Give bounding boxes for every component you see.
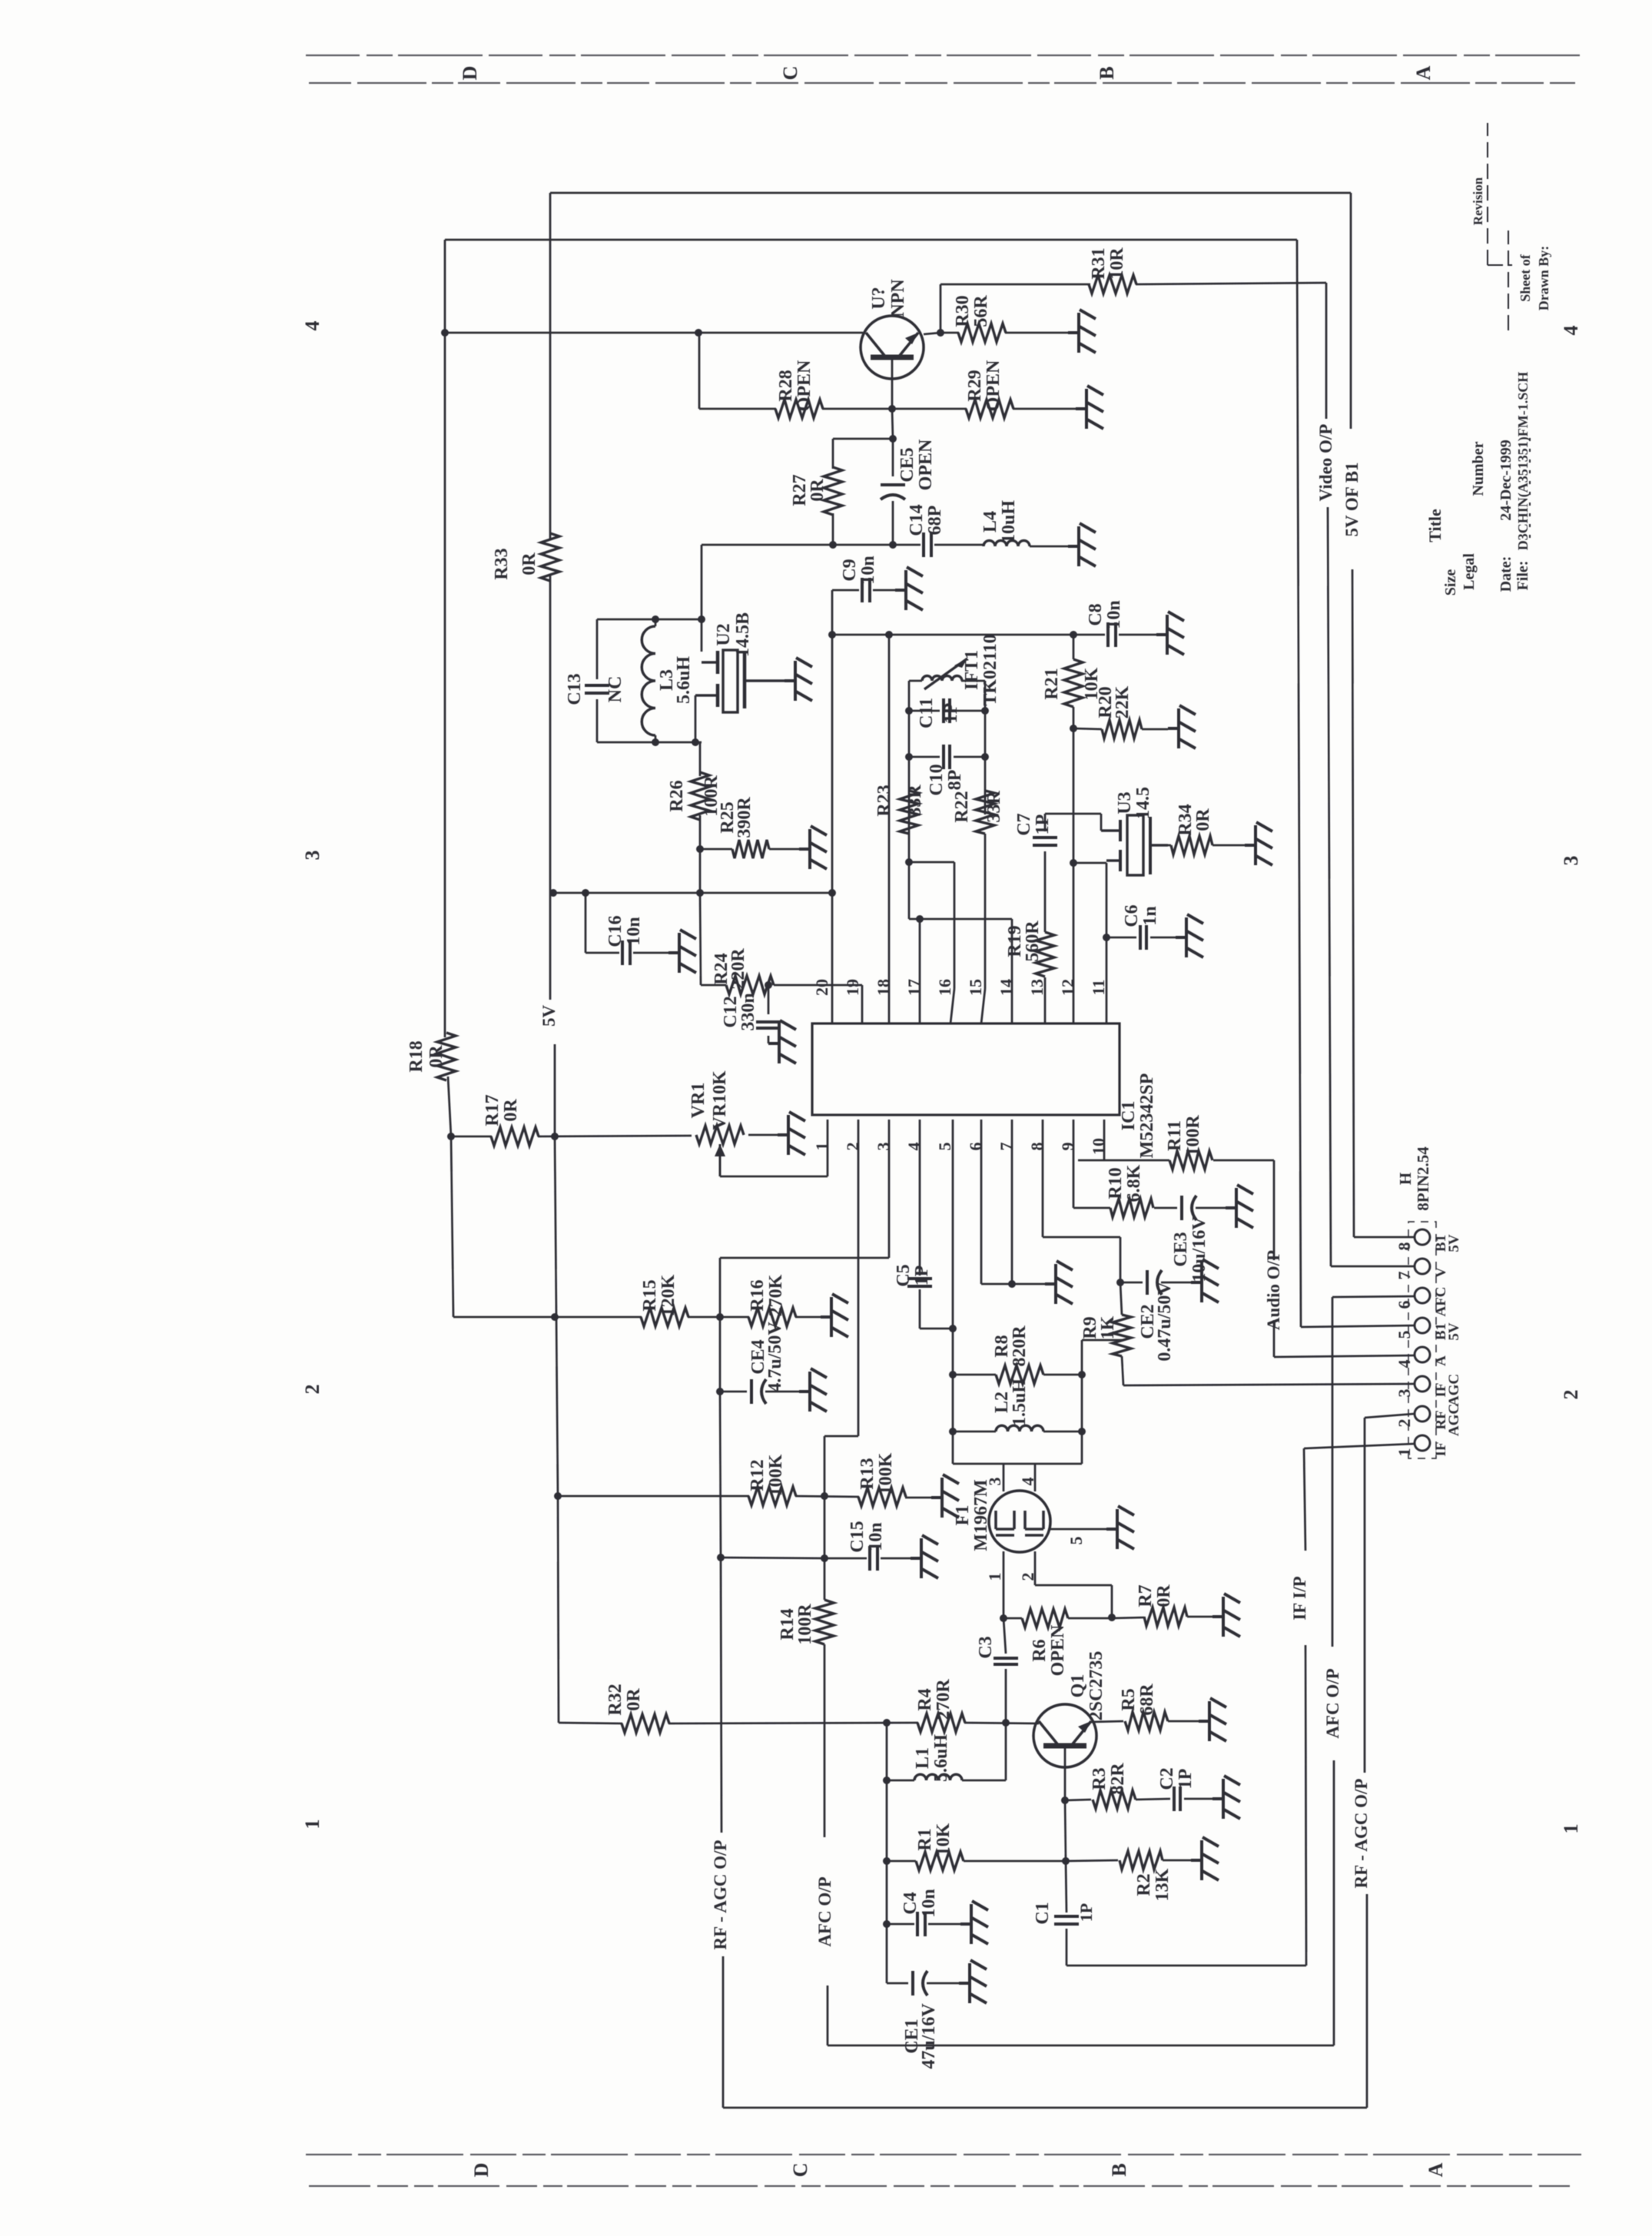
svg-text:R13: R13 — [858, 1458, 877, 1489]
svg-text:5: 5 — [1395, 1331, 1414, 1339]
svg-text:C: C — [789, 2163, 811, 2178]
wire Q1 emitter to R5 — [1091, 1721, 1123, 1722]
resistor R22 33R — [976, 791, 994, 834]
capacitor CE3 10u/16V — [1180, 1196, 1183, 1220]
wire IFT1 bottom to pin16 — [909, 861, 954, 864]
wire pin2 long stub — [858, 1120, 860, 1436]
wire R24 rail (portrait y=1282) — [701, 984, 726, 987]
ground for C2 — [1212, 1776, 1240, 1819]
svg-text:22K: 22K — [1113, 685, 1133, 718]
svg-text:Revision: Revision — [1471, 177, 1485, 225]
svg-text:270K: 270K — [766, 1274, 786, 1316]
capacitor C15 10n — [868, 1546, 871, 1571]
svg-text:3: 3 — [301, 851, 323, 861]
wire R20 to ground — [1142, 728, 1168, 731]
resistor R27 0R — [824, 467, 842, 515]
svg-text:1P: 1P — [941, 703, 961, 724]
wire W2 (portrait y=709) — [702, 544, 921, 546]
ground for CE1 — [959, 1960, 987, 2003]
wire R6 rail (portrait y=2106) — [1003, 1617, 1022, 1620]
svg-text:5.6uH: 5.6uH — [931, 1734, 951, 1782]
ground for C8 — [1156, 612, 1184, 655]
svg-text:0R: 0R — [426, 1045, 446, 1068]
resistor R15 120K — [641, 1308, 688, 1326]
svg-text:R22: R22 — [952, 791, 972, 822]
svg-text:R10: R10 — [1106, 1167, 1126, 1199]
svg-text:5V: 5V — [539, 1005, 559, 1027]
svg-text:R31: R31 — [1089, 247, 1109, 279]
svg-text:R21: R21 — [1042, 668, 1062, 699]
svg-text:2: 2 — [301, 1385, 323, 1395]
svg-text:Legal: Legal — [1461, 553, 1478, 590]
wire VR1 feed (portrait y=1478) — [451, 1136, 492, 1138]
svg-text:0R: 0R — [501, 1099, 521, 1122]
svg-text:Audio O/P: Audio O/P — [1264, 1250, 1283, 1330]
ground for R25 — [799, 826, 827, 869]
capacitor C7 1P — [1033, 844, 1057, 847]
resistor R31 10R — [1089, 275, 1136, 294]
svg-text:R29: R29 — [965, 370, 985, 401]
svg-text:0.47u/50V: 0.47u/50V — [1155, 1282, 1175, 1362]
potentiometer VR1 VR10K — [696, 1126, 744, 1144]
svg-text:C16: C16 — [605, 915, 625, 947]
wire U3 bottom pin to pin11 column — [1106, 863, 1108, 1023]
wire CE4 to ground — [765, 1391, 799, 1393]
wire pin4 stub with C5 — [919, 1120, 921, 1276]
wire R21 to pin12 column — [1073, 707, 1075, 1023]
svg-text:4: 4 — [1560, 326, 1582, 336]
svg-text:1P: 1P — [912, 1266, 932, 1286]
svg-text:CE3: CE3 — [1171, 1232, 1191, 1266]
svg-text:100K: 100K — [876, 1452, 896, 1495]
resistor R20 22K — [1073, 728, 1102, 729]
svg-text:C2: C2 — [1157, 1767, 1177, 1790]
capacitor C9 10n — [861, 578, 864, 602]
svg-text:3: 3 — [1560, 856, 1582, 866]
wire Audio O/P drop (portrait x=1658) — [1273, 1160, 1275, 1260]
title block — [1425, 177, 1551, 595]
inductor L1 5.6uH — [887, 1780, 914, 1782]
svg-text:RF - AGC O/P: RF - AGC O/P — [711, 1840, 730, 1950]
wire CE4 branch — [720, 1391, 747, 1393]
wire F1 source to ground — [1050, 1528, 1106, 1531]
svg-text:L4: L4 — [980, 511, 1000, 532]
wire pin3 stub to AGC divider column — [888, 1120, 891, 1258]
wire CE1 to ground — [927, 1982, 959, 1985]
capacitor C8 10n — [1106, 622, 1110, 647]
ground for CE2 — [1191, 1259, 1219, 1302]
svg-text:Q1: Q1 — [1068, 1674, 1088, 1698]
svg-text:68P: 68P — [925, 506, 945, 536]
svg-text:R12: R12 — [748, 1459, 768, 1491]
resistor R8 820R — [953, 1374, 996, 1376]
wire RF-AGC rise to connector pin 2 — [1366, 1894, 1368, 2108]
svg-text:2: 2 — [1018, 1573, 1037, 1581]
svg-text:2: 2 — [1560, 1390, 1582, 1400]
wire 5V rail vertical (portrait x=716/724) — [549, 193, 552, 540]
resistor R12 100K — [748, 1487, 796, 1505]
svg-text:H: H — [1396, 1173, 1415, 1185]
svg-text:R23: R23 — [874, 785, 894, 816]
svg-text:R16: R16 — [748, 1279, 768, 1311]
capacitor C4 10n — [887, 1923, 914, 1926]
wire tank bottom to R26 — [699, 742, 702, 776]
resistor R6 OPEN — [1022, 1609, 1068, 1627]
svg-text:C15: C15 — [848, 1521, 867, 1552]
svg-text:C11: C11 — [917, 698, 937, 728]
wire R7 to ground — [1187, 1616, 1212, 1618]
svg-text:C8: C8 — [1086, 603, 1106, 625]
svg-text:1: 1 — [1395, 1448, 1414, 1457]
resistor R30 56R — [958, 323, 1006, 342]
wire R27 branch — [833, 438, 893, 440]
wire decoupling rail (portrait y=826) — [832, 634, 1105, 636]
svg-text:6: 6 — [1395, 1301, 1414, 1309]
svg-text:1n: 1n — [1140, 906, 1160, 925]
resistor R34 0R — [1150, 844, 1171, 847]
svg-text:1K: 1K — [1098, 1315, 1118, 1339]
svg-text:AFC O/P: AFC O/P — [815, 1876, 834, 1946]
svg-text:TK02110: TK02110 — [980, 634, 1000, 705]
svg-text:F1: F1 — [953, 1505, 973, 1526]
svg-text:1P: 1P — [1033, 814, 1053, 835]
wire C8 to ground — [1119, 634, 1156, 636]
wire block bottom to FET gates — [953, 1463, 1082, 1465]
svg-text:1: 1 — [301, 1820, 323, 1830]
capacitor CE1 47u/16V — [887, 1982, 908, 1985]
svg-text:R15: R15 — [640, 1279, 660, 1311]
capacitor C10 8P — [909, 756, 940, 758]
svg-text:16: 16 — [935, 979, 954, 996]
ground for pins 6,7 — [1045, 1261, 1073, 1304]
svg-text:12: 12 — [1058, 979, 1077, 996]
ground for R34 — [1245, 822, 1272, 865]
ground for R2 — [1191, 1837, 1219, 1880]
svg-text:4: 4 — [1018, 1478, 1037, 1486]
svg-text:11: 11 — [1089, 980, 1108, 996]
resistor R1 10K — [887, 1860, 916, 1863]
wire pin8 stub to CE2/R9 (portrait x=1352 down, y=1610 right) — [1042, 1120, 1044, 1237]
wire CE2 to ground — [1161, 1282, 1191, 1284]
wire tank top rail — [597, 619, 702, 621]
svg-text:B: B — [1096, 66, 1118, 79]
svg-text:1P: 1P — [1176, 1769, 1196, 1790]
svg-text:C3: C3 — [976, 1636, 996, 1658]
transistor U? NPN — [861, 316, 924, 379]
wire R9 to IF AGC line (portrait y=1803) — [1122, 1356, 1123, 1385]
ground for R20 — [1168, 705, 1196, 748]
wire base bias W1 (portrait y=532) — [698, 333, 701, 409]
resistor R11 100R — [1169, 1151, 1212, 1169]
svg-text:C6: C6 — [1122, 904, 1142, 927]
wire emitter to R30 junction — [924, 333, 940, 334]
capacitor C14 68P — [922, 532, 925, 557]
svg-text:10K: 10K — [934, 1823, 954, 1856]
svg-text:0R: 0R — [1154, 1584, 1174, 1607]
resistor R14 100R — [815, 1600, 834, 1644]
ground for C4 — [960, 1901, 988, 1944]
resistor R16 270K — [748, 1308, 796, 1326]
connector H 8PIN2.54 — [1415, 1229, 1430, 1451]
capacitor C5 1P — [907, 1285, 932, 1288]
wire C7 top jog to U3 — [1045, 813, 1101, 815]
svg-text:330n: 330n — [738, 993, 758, 1030]
svg-text:5: 5 — [1067, 1537, 1086, 1545]
svg-text:R5: R5 — [1119, 1688, 1139, 1710]
svg-text:15: 15 — [966, 979, 985, 996]
wire C15/R14 column (portrait x=1073) — [824, 1496, 826, 1600]
svg-text:A: A — [1425, 2162, 1447, 2177]
svg-text:AFC O/P: AFC O/P — [1323, 1668, 1342, 1738]
wire tank bottom rail — [597, 741, 702, 744]
svg-text:220R: 220R — [728, 948, 748, 990]
svg-text:1: 1 — [1560, 1824, 1582, 1834]
svg-text:13: 13 — [1027, 979, 1047, 996]
wire CE3 to ground — [1196, 1207, 1226, 1209]
svg-text:68R: 68R — [1137, 1684, 1157, 1716]
wire video takeoff column (portrait x=1224) — [940, 284, 942, 333]
capacitor C2 1P — [1136, 1799, 1170, 1800]
wire audio to connector pin 4 — [1274, 1355, 1414, 1357]
wire L1 right to base column — [1005, 1723, 1007, 1780]
svg-text:C14: C14 — [907, 504, 927, 536]
svg-text:L1: L1 — [913, 1747, 933, 1769]
capacitor CE5 OPEN — [881, 483, 905, 486]
svg-text:D: D — [459, 66, 481, 81]
wire AFC O/P to bottom rail — [827, 1986, 829, 2045]
svg-text:270R: 270R — [934, 1679, 954, 1720]
svg-text:OPEN: OPEN — [794, 360, 814, 411]
svg-text:10n: 10n — [866, 1522, 886, 1551]
wire R5 to ground — [1168, 1720, 1199, 1723]
svg-text:10R: 10R — [1107, 247, 1127, 280]
wire pins 6,7 to ground — [980, 1120, 983, 1284]
IFT1 block left rail — [908, 681, 911, 919]
svg-text:M1967M: M1967M — [971, 1479, 991, 1551]
wire L4 to ground — [1030, 546, 1068, 548]
svg-text:6.8K: 6.8K — [1124, 1164, 1144, 1202]
ground for R13 — [931, 1475, 959, 1518]
svg-text:R1: R1 — [915, 1828, 935, 1850]
svg-text:R3: R3 — [1090, 1767, 1110, 1790]
svg-text:10u/16V: 10u/16V — [1189, 1216, 1209, 1282]
wire RF-AGC bottom rail — [722, 1956, 725, 2108]
wire C1 bottom to IF column — [1067, 1965, 1306, 1967]
transistor Q1 2SC2735 — [1033, 1704, 1096, 1767]
inductor L2 1.5uH — [953, 1431, 996, 1433]
capacitor C6 1n — [1106, 937, 1136, 939]
capacitor C1 — [1054, 1922, 1079, 1926]
wire R25 to ground — [769, 848, 799, 851]
svg-text:33R: 33R — [984, 791, 1004, 823]
IFT1 block right rail — [984, 681, 987, 814]
resistor R32 0R — [622, 1714, 669, 1733]
wire R12/R13 rail (portrait y=1947) — [558, 1495, 749, 1498]
capacitor CE2 0.47u/50V — [1120, 1282, 1143, 1284]
wire R15/R16 rail (portrait y=1714) — [688, 1316, 749, 1319]
svg-text:47u/16V: 47u/16V — [919, 2003, 939, 2069]
svg-text:10n: 10n — [919, 1889, 939, 1917]
svg-text:Title: Title — [1425, 509, 1445, 542]
resistor R3 82R — [1065, 1800, 1091, 1800]
trimmer inductor IFT1 TK02110 — [909, 680, 922, 682]
wire IF to connector pin 1 — [1304, 1444, 1414, 1448]
ground for U2 — [785, 658, 812, 701]
wire C3 column (portrait x=1309) — [1003, 1618, 1006, 1654]
svg-text:CE5: CE5 — [897, 447, 917, 482]
resistor R4 270R — [917, 1713, 965, 1732]
svg-text:R4: R4 — [915, 1688, 935, 1710]
wire C2 to ground — [1184, 1798, 1212, 1800]
wire 5V OF B1 drop (portrait x=1758) — [1350, 193, 1352, 429]
resistor R9 1K — [1113, 1315, 1131, 1356]
wire C15 branch — [824, 1558, 867, 1560]
svg-text:100R: 100R — [1183, 1115, 1203, 1156]
svg-text:2: 2 — [1395, 1419, 1414, 1428]
resistor R2 13K — [1066, 1860, 1118, 1861]
resistor R7 0R — [1144, 1607, 1187, 1626]
svg-text:10n: 10n — [858, 556, 878, 584]
svg-text:14.5B: 14.5B — [733, 612, 753, 657]
svg-text:R17: R17 — [483, 1094, 503, 1126]
svg-text:0R: 0R — [808, 479, 828, 502]
wire R2 to ground — [1163, 1859, 1191, 1862]
svg-text:20: 20 — [812, 979, 831, 996]
svg-text:4.7u/50V: 4.7u/50V — [765, 1322, 785, 1392]
wire R15 feed (portrait y=1714) — [453, 1316, 642, 1319]
svg-text:V: V — [1433, 1267, 1449, 1278]
svg-text:U2: U2 — [714, 623, 734, 645]
svg-text:C13: C13 — [565, 673, 585, 705]
wire C7/R19 column (portrait x=1360) — [1044, 814, 1047, 831]
ground for C15 — [911, 1535, 938, 1578]
svg-text:C10: C10 — [927, 764, 947, 795]
inductor L3 5.6uH — [655, 619, 657, 626]
wire tank left branch C13 — [596, 619, 599, 679]
svg-text:R26: R26 — [667, 780, 687, 811]
sheet frame border lines — [306, 55, 1581, 2186]
svg-text:8P: 8P — [945, 770, 965, 791]
wire U3 top rail from pin12 column — [1073, 862, 1106, 864]
svg-text:8PIN2.54: 8PIN2.54 — [1414, 1146, 1432, 1211]
svg-text:R2: R2 — [1134, 1873, 1154, 1896]
resistor R25 390R — [700, 848, 732, 851]
resistor R10 6.8K — [1110, 1199, 1153, 1217]
ground for C12 — [768, 1020, 796, 1063]
resistor R26 100R — [691, 772, 709, 820]
svg-text:7: 7 — [1395, 1272, 1414, 1280]
svg-text:NPN: NPN — [888, 279, 908, 317]
wire pin18 stub — [888, 635, 891, 1023]
wire pin9 stub and R10 rail (portrait y=1572) — [1073, 1120, 1075, 1208]
svg-text:VR10K: VR10K — [710, 1070, 730, 1130]
wire pin10 stub and R11 rail (portrait y=1510) — [1103, 1120, 1106, 1160]
crystal U2 14.5B — [701, 619, 703, 652]
ground for VR1 — [778, 1112, 805, 1155]
capacitor C12 330n — [768, 985, 770, 1014]
resistor R17 0R — [491, 1127, 539, 1146]
wire pin5 stub to L2/R8 block — [952, 1120, 954, 1464]
svg-text:RF - AGC O/P: RF - AGC O/P — [1352, 1779, 1371, 1889]
wire R9 top rail link — [1082, 1339, 1122, 1342]
svg-text:14: 14 — [997, 979, 1016, 996]
ground for R29 — [1076, 386, 1103, 429]
wire IFT1 left rail to pin17/pin14 — [909, 918, 1012, 921]
ground for L4 — [1068, 523, 1096, 566]
resistor R21 10K — [1073, 635, 1075, 659]
wire pin20 column (portrait x=1083) — [831, 590, 834, 1023]
svg-text:IF: IF — [1433, 1442, 1449, 1457]
svg-text:AFC: AFC — [1433, 1286, 1449, 1316]
FET F1 M1967M — [989, 1491, 1050, 1552]
svg-text:A: A — [1433, 1355, 1449, 1366]
svg-text:5V OF B1: 5V OF B1 — [1342, 462, 1362, 536]
svg-text:120K: 120K — [658, 1274, 678, 1316]
IC U1 IC1 M52342SP box — [812, 1023, 1120, 1115]
wire collector rail W0 (portrait y=433) — [445, 332, 863, 334]
svg-text:Video O/P: Video O/P — [1316, 424, 1335, 502]
svg-text:Size: Size — [1442, 569, 1459, 596]
svg-text:IF I/P: IF I/P — [1290, 1576, 1309, 1620]
capacitor CE4 4.7u/50V — [750, 1379, 753, 1404]
svg-text:IFT1: IFT1 — [962, 650, 982, 690]
svg-text:VR1: VR1 — [688, 1083, 708, 1119]
svg-text:4: 4 — [301, 321, 323, 331]
svg-text:0R: 0R — [519, 552, 539, 576]
wire rect2 left edge / R18 column (portrait x=579..590) — [444, 240, 446, 1037]
svg-text:1: 1 — [985, 1573, 1004, 1581]
wire AFC rise to connector pin 6 (portrait x=1736) — [1333, 1760, 1335, 2045]
ground for C9 — [895, 567, 923, 610]
wire AGC column (portrait x=937) — [719, 1317, 722, 1392]
resistor R23 33R — [900, 791, 918, 834]
svg-text:D3CHIN(A351351)FM-1.SCH: D3CHIN(A351351)FM-1.SCH — [1515, 372, 1531, 550]
svg-text:File:: File: — [1514, 561, 1531, 591]
svg-text:C4: C4 — [901, 1892, 921, 1914]
wire Q1 base column through R3/R1 nodes to C1 — [1065, 1800, 1066, 1861]
svg-text:2SC2735: 2SC2735 — [1086, 1651, 1106, 1721]
resistor R5 68R — [1125, 1712, 1168, 1730]
wire B1-5V rail second rect (portrait y=315->309) — [445, 239, 1297, 241]
wire Video O/P drop (portrait x=1726) — [1325, 283, 1328, 419]
wire R30 to ground — [1005, 332, 1068, 334]
ground for C6 — [1176, 914, 1203, 957]
resistor R19 560R — [1036, 932, 1054, 977]
svg-text:0R: 0R — [624, 1688, 644, 1711]
resistor R29 OPEN — [966, 400, 1013, 418]
wire C16 branch — [585, 893, 587, 953]
capacitor C11 1P — [909, 710, 940, 712]
svg-text:560R: 560R — [1023, 921, 1043, 962]
wire L2/R8 right rail — [1081, 1340, 1083, 1464]
ground for CE3 — [1226, 1185, 1253, 1228]
capacitor C16 10n — [621, 941, 624, 965]
connector dashed outline — [1408, 1222, 1436, 1458]
svg-text:U?: U? — [869, 287, 889, 309]
ground for F1 source — [1106, 1506, 1134, 1549]
svg-text:0R: 0R — [1193, 808, 1213, 831]
svg-text:56R: 56R — [971, 295, 991, 327]
svg-text:R11: R11 — [1165, 1120, 1185, 1151]
svg-text:Date:: Date: — [1498, 556, 1514, 592]
svg-text:OPEN: OPEN — [916, 439, 936, 490]
wire L1/R1/C4/CE1 rail (portrait x=1154) — [886, 1723, 888, 1983]
capacitor C13 NC — [585, 692, 609, 695]
crystal U3 14.5 — [1101, 815, 1168, 875]
svg-text:Drawn By:: Drawn By: — [1536, 246, 1551, 311]
wire F1 drain/gate bottom leads — [1003, 1551, 1005, 1618]
wire U? base lead — [891, 357, 894, 409]
